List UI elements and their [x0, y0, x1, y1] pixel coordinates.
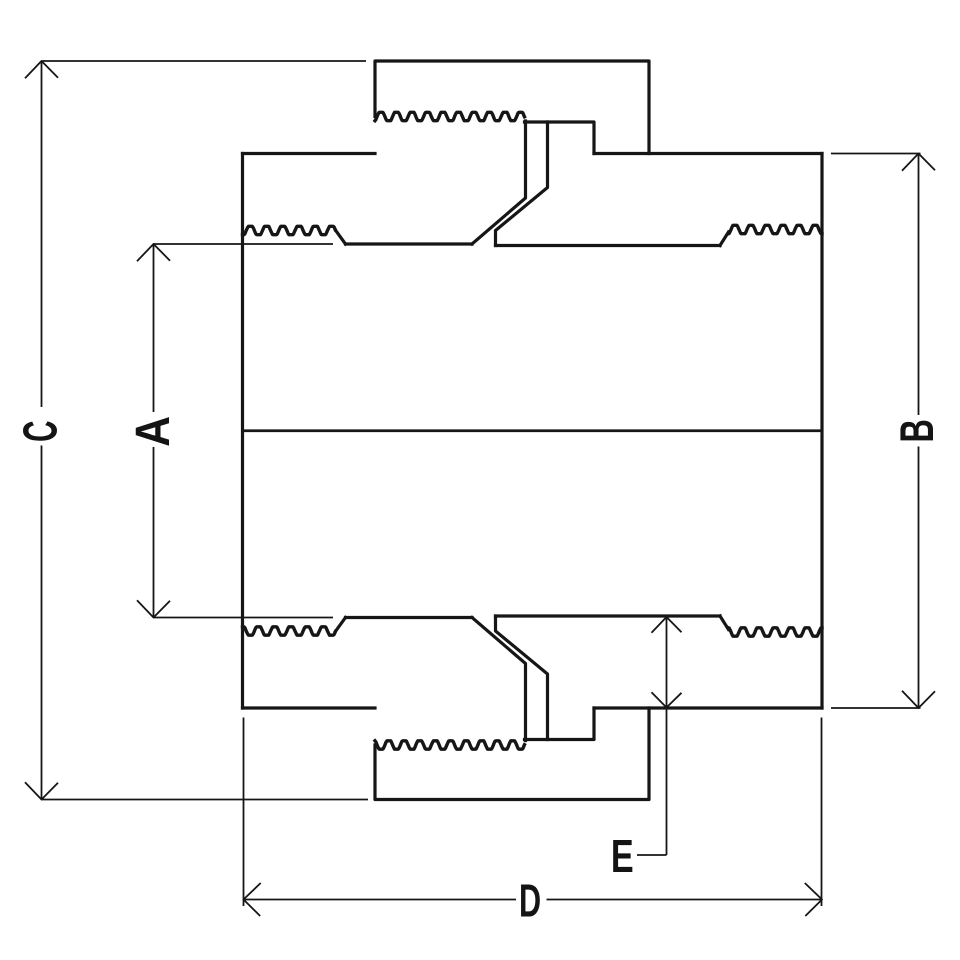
bottom tab external thread	[375, 741, 525, 749]
dim B extension bottom	[831, 707, 921, 709]
lower pipe chamfer inner diagonal	[496, 616, 548, 740]
lower-right internal thread	[729, 628, 823, 636]
dim D extension left	[243, 718, 245, 907]
body top edge right segment	[594, 152, 822, 155]
upper pipe chamfer outer diagonal	[472, 121, 526, 244]
dim D extension right	[821, 718, 823, 907]
dim C extension bottom	[42, 799, 369, 801]
dim A extension bottom	[154, 617, 334, 619]
dim E label leader	[637, 854, 667, 856]
center parting line	[243, 429, 823, 432]
body bottom edge right segment	[594, 706, 822, 709]
dim B extension top	[831, 153, 921, 155]
dim D arrow left	[244, 883, 261, 916]
lower pipe chamfer outer diagonal	[472, 618, 526, 741]
lower-right socket bore line	[496, 614, 721, 617]
dim C arrow up	[25, 61, 58, 78]
upper-right thread runout slant	[720, 232, 729, 246]
dim A line upper segment	[153, 244, 155, 412]
lower-left internal thread	[243, 627, 336, 635]
dim B line upper segment	[918, 154, 920, 416]
lower pipe end bottom	[525, 708, 595, 740]
upper pipe chamfer inner diagonal	[496, 122, 548, 246]
upper-left internal thread	[243, 226, 336, 234]
dim C line upper segment	[41, 61, 43, 407]
union body right edge	[820, 154, 823, 709]
bottom tab outline (lower male adapter)	[375, 708, 649, 800]
dim D arrow right	[805, 883, 822, 916]
dim C arrow down	[25, 782, 58, 799]
upper-right socket bore line	[496, 244, 721, 247]
upper pipe end top	[525, 122, 595, 154]
body bottom edge left segment	[243, 706, 376, 709]
body top edge left segment	[243, 152, 376, 155]
svg-text:A: A	[126, 416, 180, 447]
top tab outline (upper male adapter)	[375, 61, 649, 154]
dim C line lower segment	[41, 446, 43, 800]
upper-right internal thread	[729, 225, 823, 233]
lower-right thread runout slant	[720, 616, 729, 630]
dim B line lower segment	[918, 447, 920, 709]
svg-text:D: D	[519, 875, 541, 927]
dim A extension top	[154, 243, 334, 245]
upper-left thread runout slant	[335, 230, 345, 244]
union body left edge	[241, 154, 244, 709]
dim B arrow up	[902, 154, 935, 171]
dim A arrow down	[137, 600, 170, 617]
svg-text:B: B	[890, 419, 944, 442]
top tab external thread	[375, 112, 525, 120]
dim B arrow down	[902, 691, 935, 708]
dim A line lower segment	[153, 447, 155, 618]
lower-left thread runout slant	[335, 618, 345, 632]
dim D line right segment	[547, 899, 823, 901]
dim C extension top	[42, 60, 367, 62]
dim A arrow up	[137, 244, 170, 261]
lower-left socket bore line	[346, 616, 473, 619]
upper-left socket bore line	[346, 242, 473, 245]
svg-text:C: C	[14, 421, 67, 442]
dim D line left segment	[244, 899, 517, 901]
dim E arrow up	[652, 617, 682, 633]
dim E arrow down	[652, 692, 682, 707]
dim E line	[666, 617, 668, 855]
svg-text:E: E	[611, 830, 634, 882]
